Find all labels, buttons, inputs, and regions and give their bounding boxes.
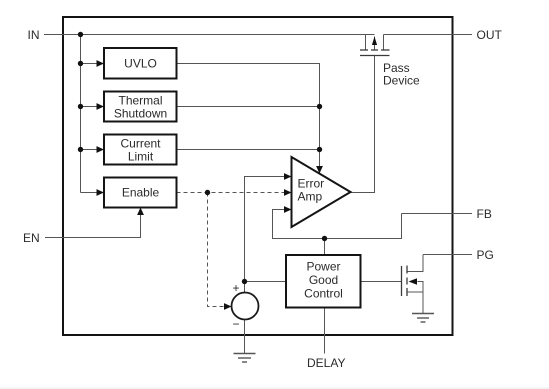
svg-text:Thermal: Thermal <box>118 94 162 108</box>
svg-text:IN: IN <box>28 28 40 42</box>
svg-text:Good: Good <box>309 273 338 287</box>
svg-text:UVLO: UVLO <box>124 57 157 71</box>
svg-text:+: + <box>232 281 239 295</box>
svg-text:Shutdown: Shutdown <box>114 107 167 121</box>
svg-text:FB: FB <box>477 207 492 221</box>
svg-text:EN: EN <box>23 231 40 245</box>
svg-text:Amp: Amp <box>298 190 323 204</box>
svg-text:Enable: Enable <box>122 186 160 200</box>
svg-text:Error: Error <box>298 177 325 191</box>
svg-text:Current: Current <box>120 137 161 151</box>
svg-text:Limit: Limit <box>128 150 154 164</box>
svg-text:−: − <box>232 317 239 331</box>
svg-text:OUT: OUT <box>477 28 503 42</box>
svg-text:Device: Device <box>383 74 420 88</box>
svg-text:Power: Power <box>306 260 340 274</box>
svg-text:DELAY: DELAY <box>307 356 345 370</box>
svg-text:Control: Control <box>304 287 343 301</box>
svg-text:PG: PG <box>477 248 494 262</box>
